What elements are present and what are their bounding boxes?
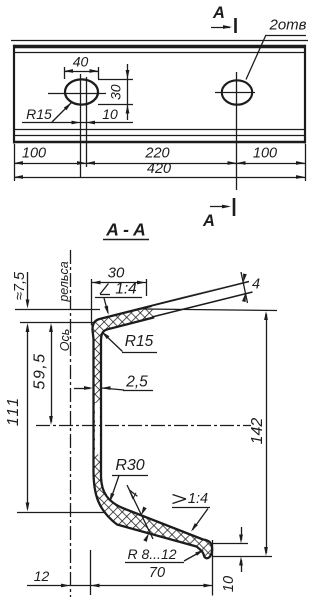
left hole vertical centerline bbox=[80, 74, 82, 178]
svg-text:10: 10 bbox=[102, 106, 118, 122]
extension lines for length dims bbox=[14, 144, 16, 181]
dimension 30 (head width) bbox=[91, 279, 93, 326]
svg-text:30: 30 bbox=[108, 265, 125, 282]
label slope 1:4 (flange) bbox=[173, 495, 187, 500]
right hole vertical centerline / cut line bbox=[236, 72, 238, 190]
left oval hole bbox=[65, 79, 98, 104]
svg-text:40: 40 bbox=[73, 54, 89, 70]
svg-text:A: A bbox=[202, 212, 215, 230]
bottom extension line (111 datum) bbox=[17, 512, 106, 514]
svg-text:≈7,5: ≈7,5 bbox=[12, 271, 28, 300]
svg-text:100: 100 bbox=[253, 146, 277, 162]
rail axis centerline (Ось рельса) bbox=[70, 250, 72, 597]
dimension 420 bbox=[14, 177, 305, 179]
section profile (hatched fishplate cross-section) bbox=[92, 282, 252, 559]
web un-hatched break bbox=[95, 403, 100, 455]
datum line (right, for 142) bbox=[144, 309, 277, 311]
svg-text:Ось: Ось bbox=[58, 329, 72, 352]
dimension 4 (flange thickness) bbox=[127, 485, 153, 539]
svg-text:30: 30 bbox=[108, 84, 124, 100]
svg-text:R15: R15 bbox=[125, 333, 154, 350]
dimension 111 bbox=[27, 326, 29, 509]
left hole horizontal centerline bbox=[48, 93, 106, 95]
svg-text:1:4: 1:4 bbox=[115, 281, 137, 298]
svg-text:R30: R30 bbox=[115, 457, 144, 474]
svg-text:59,5: 59,5 bbox=[32, 352, 49, 389]
svg-text:12: 12 bbox=[34, 568, 50, 584]
dimension 59,5 bbox=[51, 326, 53, 422]
svg-text:111: 111 bbox=[5, 396, 22, 426]
svg-text:R15: R15 bbox=[26, 106, 52, 122]
dimension 10 (hole offset) bbox=[22, 122, 133, 124]
fishplate top datum line (left) bbox=[20, 322, 94, 324]
svg-text:R 8...12: R 8...12 bbox=[127, 546, 176, 562]
plate bottom edge lines bbox=[14, 129, 305, 131]
right hole horizontal centerline bbox=[215, 92, 255, 94]
svg-text:220: 220 bbox=[144, 146, 169, 162]
svg-text:рельса: рельса bbox=[57, 261, 71, 302]
horizontal neutral axis centerline bbox=[36, 425, 251, 427]
svg-text:420: 420 bbox=[147, 161, 171, 177]
dimension row 100-220-100 bbox=[14, 163, 305, 165]
svg-text:100: 100 bbox=[22, 146, 46, 162]
plate top edge lines bbox=[11, 40, 308, 42]
bottom extension lines bbox=[90, 550, 92, 595]
tongue interior white-out bbox=[152, 279, 257, 320]
label ∠1:4 (head slope) bbox=[100, 284, 109, 295]
svg-text:10: 10 bbox=[221, 576, 237, 592]
rail top datum line (left) bbox=[15, 309, 100, 311]
dimension 142 bbox=[266, 314, 268, 553]
plate right edge bbox=[304, 45, 306, 144]
svg-text:A - A: A - A bbox=[105, 220, 146, 240]
svg-text:2отв: 2отв bbox=[268, 17, 306, 34]
svg-text:2,5: 2,5 bbox=[125, 374, 148, 391]
dimension 2,5 (web thickness) bbox=[74, 388, 90, 390]
dimension 40 bbox=[64, 67, 66, 79]
right oval hole bbox=[222, 80, 252, 104]
dimension 10 (foot height) bbox=[213, 543, 248, 545]
dimension 4 (tongue thickness) bbox=[241, 272, 248, 303]
plate left edge bbox=[13, 45, 15, 144]
svg-text:70: 70 bbox=[149, 565, 165, 581]
svg-text:142: 142 bbox=[249, 418, 266, 445]
dimension ≈7,5 bbox=[27, 272, 29, 305]
svg-text:4: 4 bbox=[252, 277, 260, 293]
dimension 12 and 70 bbox=[27, 585, 213, 587]
extension line at 100 mark bbox=[86, 77, 88, 167]
svg-text:A: A bbox=[212, 4, 225, 22]
dimension 30 (hole height) bbox=[98, 79, 133, 81]
svg-text:1:4: 1:4 bbox=[188, 491, 208, 507]
